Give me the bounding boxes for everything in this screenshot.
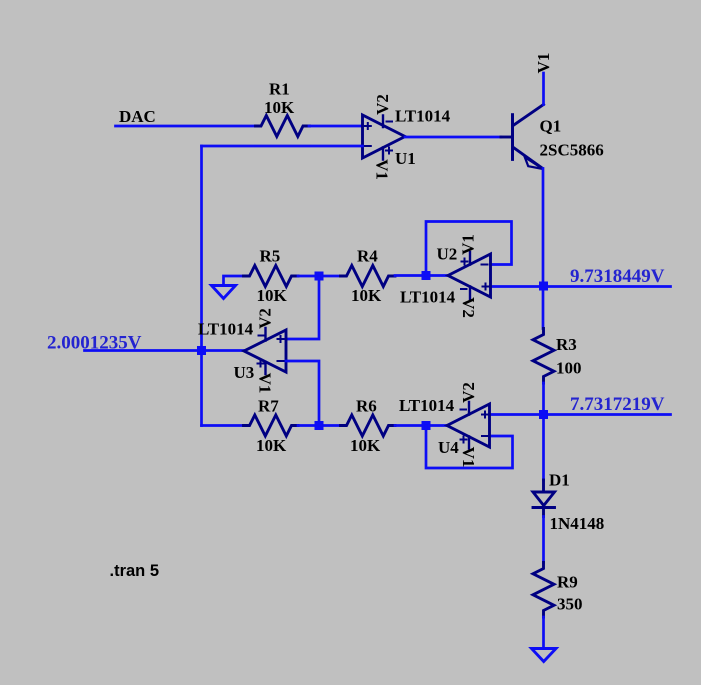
- wire U1 -in to left vertical: [202, 145, 363, 148]
- resistor R5: [244, 266, 299, 287]
- wire R3 to node B: [542, 383, 545, 480]
- svg-text:2SC5866: 2SC5866: [540, 141, 604, 160]
- svg-text:V2: V2: [256, 308, 275, 329]
- svg-text:LT1014: LT1014: [399, 396, 455, 415]
- junction U2 out: [422, 271, 431, 280]
- svg-text:R7: R7: [258, 397, 279, 416]
- svg-text:10K: 10K: [351, 286, 382, 305]
- wire long vertical: [200, 146, 203, 426]
- wire R7 to J2: [298, 424, 314, 427]
- svg-text:V1: V1: [459, 234, 478, 255]
- svg-text:R5: R5: [260, 247, 281, 266]
- wire Q1 emitter down to R3: [542, 169, 545, 329]
- svg-text:V1: V1: [534, 53, 553, 74]
- svg-text:D1: D1: [549, 471, 570, 490]
- svg-text:V1: V1: [373, 159, 392, 180]
- wire U1 out to Q1 base: [405, 136, 501, 139]
- svg-text:V2: V2: [459, 297, 478, 318]
- svg-text:10K: 10K: [257, 286, 288, 305]
- svg-text:9.7318449V: 9.7318449V: [570, 266, 665, 287]
- resistor R9: [533, 563, 554, 618]
- svg-text:10K: 10K: [350, 436, 381, 455]
- svg-text:10K: 10K: [256, 436, 287, 455]
- wire J1 to R4: [324, 275, 341, 278]
- wire D1 to R9: [542, 517, 545, 563]
- wire U4 output: [426, 424, 447, 427]
- svg-text:LT1014: LT1014: [395, 107, 451, 126]
- resistor R4: [341, 266, 396, 287]
- svg-text:1N4148: 1N4148: [550, 514, 605, 533]
- resistor R1: [256, 116, 310, 137]
- svg-text:V1: V1: [459, 447, 478, 468]
- svg-text:U1: U1: [395, 149, 416, 168]
- svg-text:R9: R9: [557, 573, 578, 592]
- diode D1: [542, 480, 545, 492]
- svg-text:U3: U3: [234, 363, 255, 382]
- svg-text:350: 350: [557, 595, 583, 614]
- svg-text:2.0001235V: 2.0001235V: [47, 333, 142, 354]
- svg-text:V2: V2: [373, 94, 392, 115]
- wire U2 feedback loop: [426, 222, 512, 276]
- wire R4 to U2 output junction: [395, 274, 426, 277]
- ground bottom: [532, 649, 557, 662]
- node 9.7318449V: [491, 285, 671, 288]
- wire R5 to junction J1: [298, 275, 315, 278]
- svg-text:R6: R6: [356, 397, 377, 416]
- svg-text:V1: V1: [256, 373, 275, 394]
- wire R9 to ground: [542, 617, 545, 649]
- svg-text:10K: 10K: [264, 98, 295, 117]
- resistor R6: [341, 415, 396, 436]
- op-amp U1: [363, 115, 406, 158]
- svg-text:Q1: Q1: [540, 117, 562, 136]
- resistor R7: [244, 415, 299, 436]
- wire J1 down to U3 +in: [286, 276, 319, 339]
- svg-text:U4: U4: [438, 438, 459, 457]
- node 2.0001235V: [85, 349, 245, 352]
- svg-text:.tran 5: .tran 5: [110, 562, 160, 580]
- wire R6 to U4 output junction: [395, 424, 426, 427]
- junction U4 out: [422, 421, 431, 430]
- wire left vert to R7: [202, 424, 244, 427]
- wire ground to R5: [224, 276, 244, 286]
- node 7.7317219V: [490, 413, 671, 416]
- wire J2 to R6: [324, 424, 341, 427]
- wire Q1 collector to V1: [542, 73, 545, 105]
- wire U4 feedback loop: [426, 426, 513, 469]
- junction J2: [315, 421, 324, 430]
- svg-text:DAC: DAC: [119, 107, 156, 126]
- svg-text:LT1014: LT1014: [400, 288, 456, 307]
- svg-text:V2: V2: [459, 382, 478, 403]
- svg-text:R4: R4: [357, 247, 378, 266]
- ground R5: [212, 286, 236, 299]
- op-amp U2: [448, 254, 491, 297]
- op-amp U4: [447, 404, 490, 447]
- op-amp U3: [244, 330, 286, 372]
- svg-text:7.7317219V: 7.7317219V: [570, 394, 665, 415]
- svg-text:100: 100: [556, 359, 582, 378]
- transistor Q1: [511, 115, 514, 160]
- junction J1: [315, 272, 324, 281]
- svg-text:U2: U2: [437, 245, 458, 264]
- wire U2 output: [426, 274, 448, 277]
- svg-text:R1: R1: [269, 80, 290, 99]
- wire DAC to R1: [116, 125, 256, 128]
- resistor R3: [533, 329, 554, 384]
- svg-text:R3: R3: [556, 335, 577, 354]
- wire R1 to U1 +in: [309, 125, 363, 128]
- svg-text:LT1014: LT1014: [198, 320, 254, 339]
- wire U3 -in to J2: [286, 361, 319, 426]
